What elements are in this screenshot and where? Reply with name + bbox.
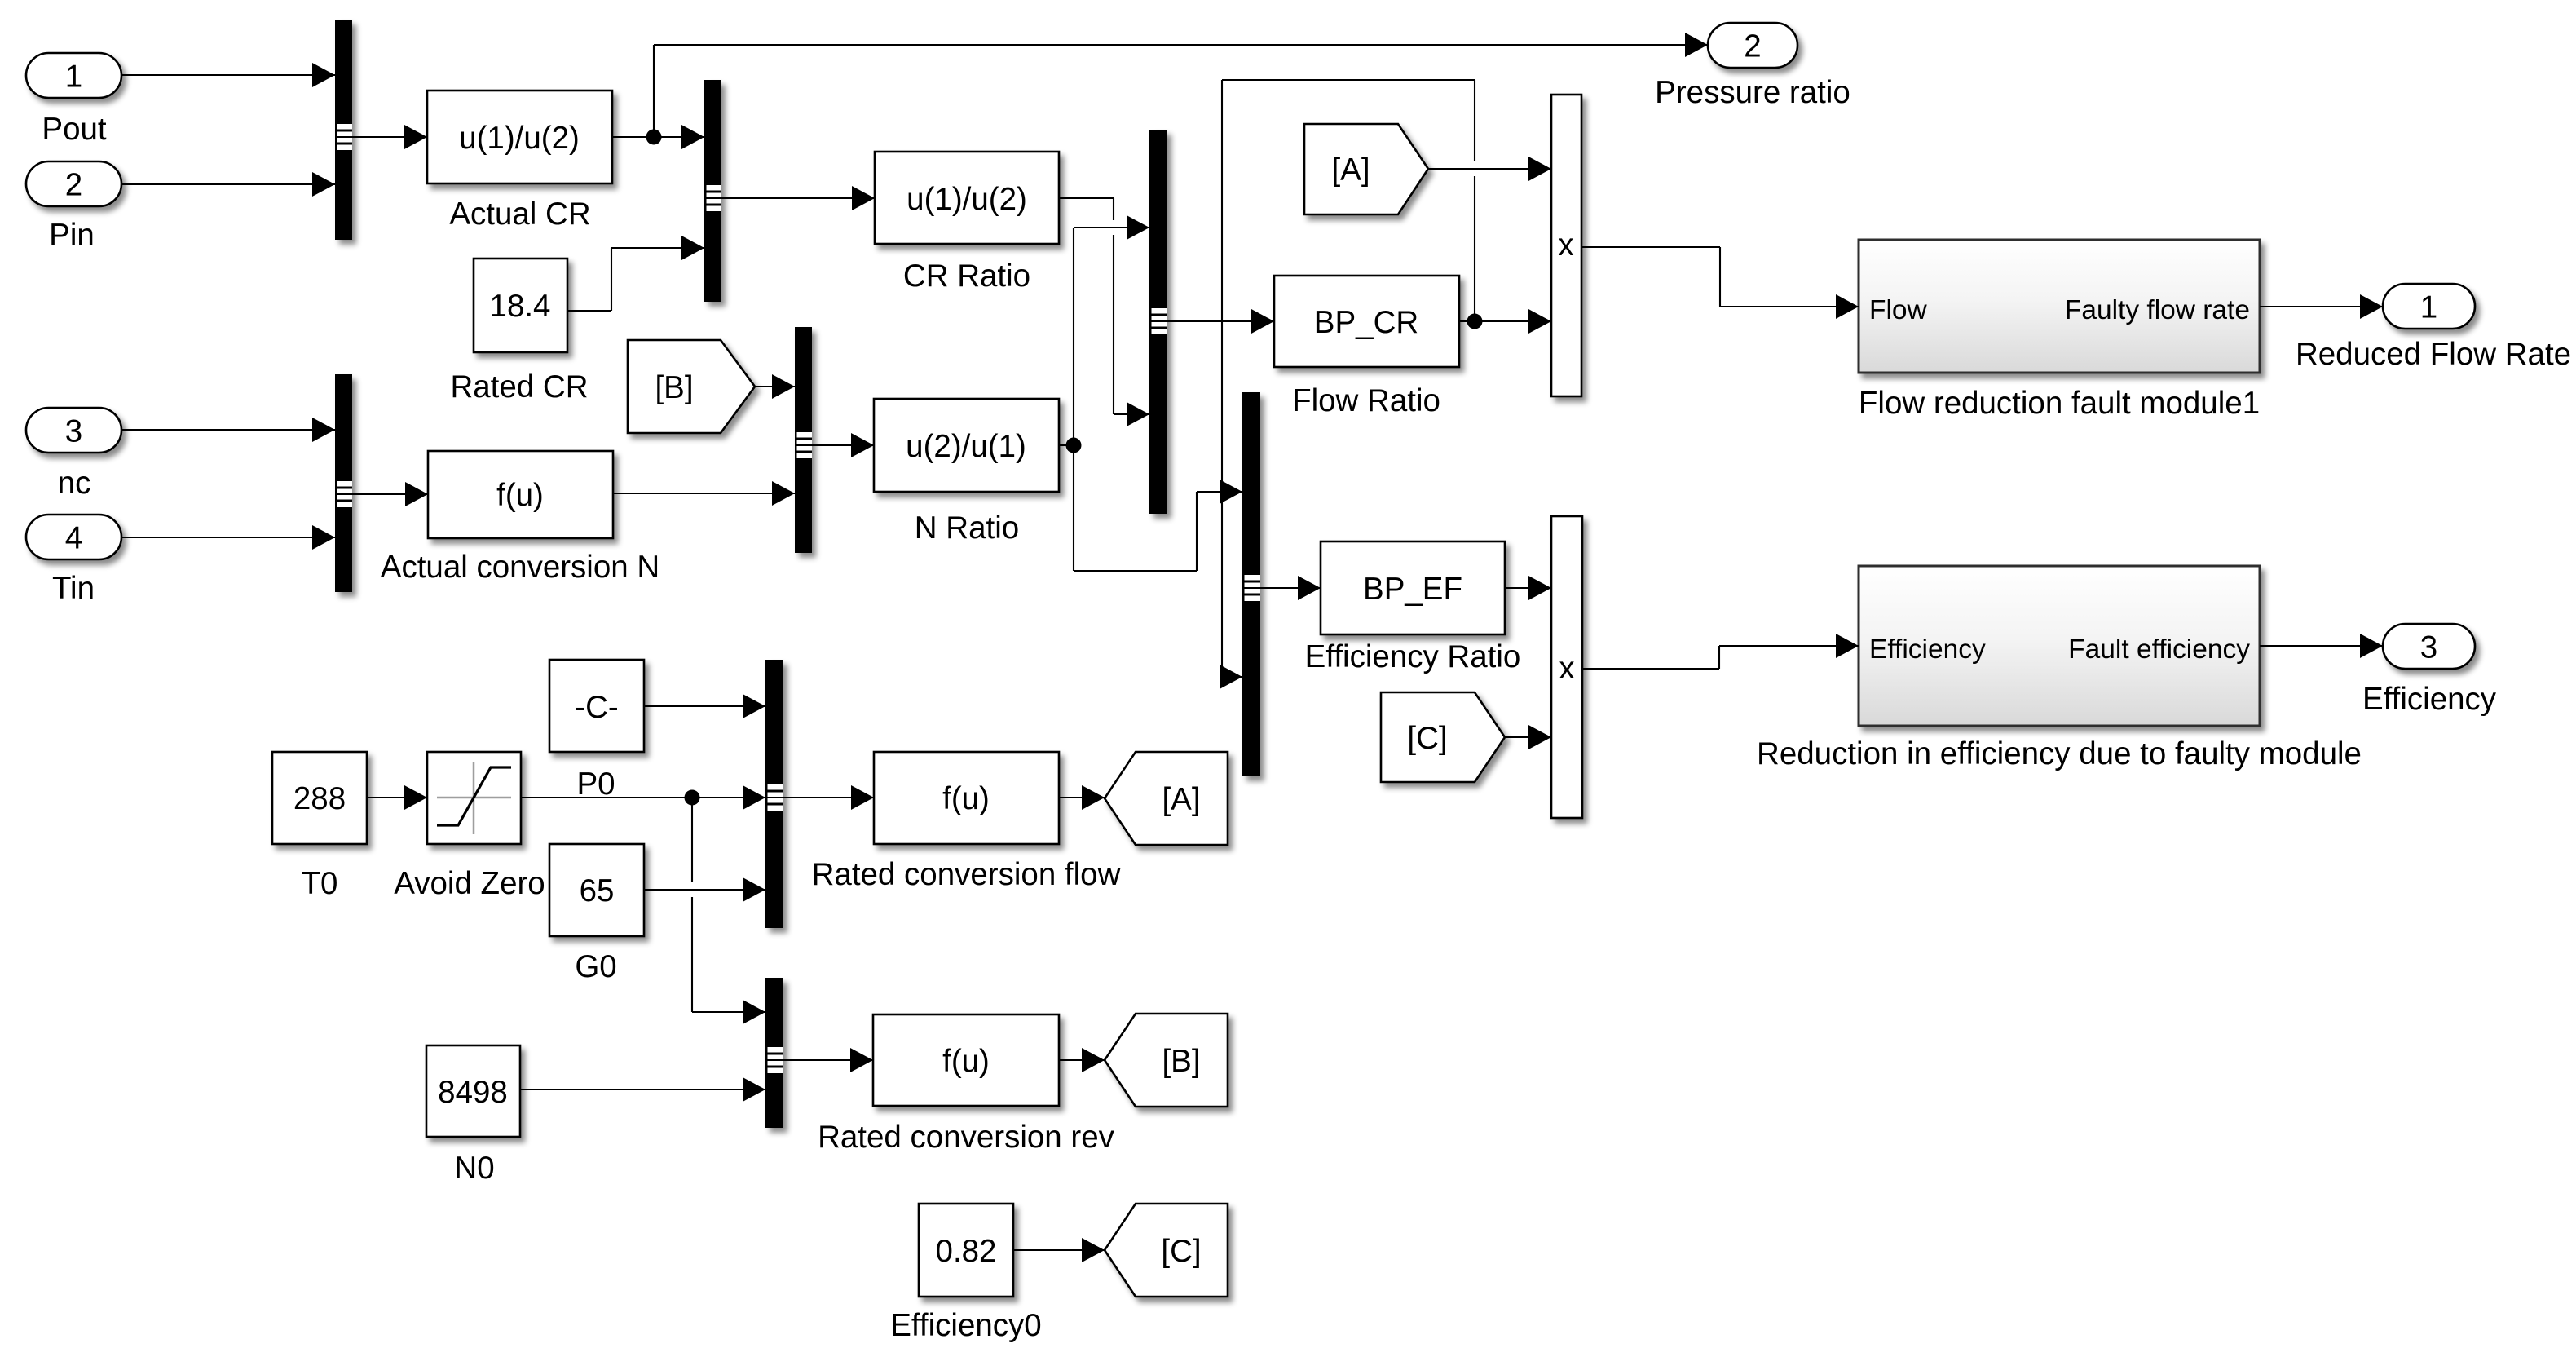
wire 8498 to M8 — [520, 1077, 765, 1102]
input port 2 (Pin) — [26, 161, 121, 206]
junction T0 line — [685, 790, 700, 806]
svg-text:u(2)/u(1): u(2)/u(1) — [906, 429, 1026, 464]
output port 3 (Efficiency) — [2383, 624, 2475, 669]
mux M1 (Pout,Pin bus) — [335, 20, 352, 240]
Goto tag [B] — [1105, 1014, 1228, 1107]
svg-text:Rated CR: Rated CR — [450, 369, 588, 404]
wire BP_CR feedback to M6 input2 — [1220, 80, 1475, 689]
mux M2 (ActualCR,RatedCR bus) — [704, 80, 721, 302]
wire N Ratio junction down to M6 input1 — [1074, 445, 1242, 571]
wire BP_CR to product X1 — [1459, 309, 1551, 334]
Fcn block Actual conversion N — [428, 451, 613, 538]
mux M7 (P0,T0,G0 bus) — [765, 660, 783, 928]
svg-text:N0: N0 — [454, 1151, 494, 1186]
From tag [A] — [1304, 124, 1428, 214]
wire Actual CR to Pressure ratio port — [654, 33, 1708, 137]
subsystem Flow reduction fault module1 — [1859, 240, 2260, 373]
svg-text:2: 2 — [1744, 29, 1761, 64]
svg-text:Efficiency Ratio: Efficiency Ratio — [1305, 639, 1521, 674]
From tag [B] — [628, 340, 755, 433]
svg-text:-C-: -C- — [575, 690, 618, 725]
wire [C] to product X2 — [1505, 725, 1551, 749]
svg-text:f(u): f(u) — [942, 1044, 990, 1079]
wire subsystem2 to Efficiency port — [2260, 634, 2383, 658]
input port 4 (Tin) — [26, 515, 121, 559]
wire T0 junction down to M8 — [692, 798, 765, 1024]
svg-text:[A]: [A] — [1162, 782, 1200, 817]
mux stripe icon M2 — [707, 185, 722, 211]
mux stripe icon M7 — [768, 784, 784, 811]
output port 2 (Pressure ratio) — [1708, 23, 1797, 68]
wire M4 to Actual conversion N — [352, 482, 428, 506]
svg-text:T0: T0 — [302, 866, 338, 901]
constant 18.4 (Rated CR) — [474, 259, 567, 352]
svg-text:[B]: [B] — [1162, 1044, 1200, 1079]
svg-text:[C]: [C] — [1407, 721, 1447, 756]
wire Actual conversion N to M3 — [613, 481, 795, 506]
svg-text:Flow: Flow — [1869, 295, 1928, 325]
svg-text:Fault efficiency: Fault efficiency — [2068, 634, 2250, 665]
wire nc to M4 — [121, 418, 335, 442]
mux M8 (T0,N0 bus) — [765, 978, 783, 1128]
svg-text:u(1)/u(2): u(1)/u(2) — [906, 182, 1027, 217]
divide block Actual CR — [427, 91, 612, 183]
svg-text:3: 3 — [2420, 630, 2437, 665]
mux M5 (ratios bus) — [1149, 130, 1167, 514]
wire M6 to BP_EF — [1260, 576, 1321, 600]
svg-text:Efficiency0: Efficiency0 — [890, 1308, 1041, 1343]
svg-text:N Ratio: N Ratio — [915, 510, 1019, 546]
wire BP_EF to product X2 — [1505, 576, 1551, 600]
divide block CR Ratio — [875, 152, 1059, 244]
svg-text:BP_CR: BP_CR — [1314, 305, 1418, 340]
svg-text:CR Ratio: CR Ratio — [903, 259, 1030, 294]
wire Rated CR 18.4 to M2 — [567, 236, 704, 311]
divide block N Ratio — [874, 399, 1059, 492]
wire M5 to BP_CR — [1167, 309, 1274, 334]
wire Avoid Zero to M7 — [521, 785, 765, 810]
svg-text:[A]: [A] — [1331, 152, 1370, 188]
constant -C- (P0) — [549, 660, 644, 752]
subsystem Reduction in efficiency due to faulty module — [1859, 566, 2260, 726]
svg-text:Avoid Zero: Avoid Zero — [394, 866, 545, 901]
wire Pout to M1 — [121, 63, 335, 87]
svg-text:18.4: 18.4 — [490, 289, 551, 324]
wire product X1 to subsystem1 — [1581, 247, 1859, 319]
svg-text:Tin: Tin — [52, 571, 95, 606]
junction BP_CR output — [1467, 314, 1483, 329]
svg-text:[B]: [B] — [655, 370, 693, 405]
svg-text:Reduced Flow Rate: Reduced Flow Rate — [2296, 337, 2571, 372]
svg-text:2: 2 — [65, 168, 82, 203]
wire N Ratio to junction — [1059, 444, 1074, 446]
svg-text:1: 1 — [65, 60, 82, 95]
svg-text:1: 1 — [2420, 290, 2437, 325]
svg-text:u(1)/u(2): u(1)/u(2) — [459, 121, 580, 156]
svg-text:0.82: 0.82 — [936, 1234, 997, 1269]
lookup block BP_CR (Flow Ratio) — [1274, 276, 1459, 367]
svg-text:[C]: [C] — [1161, 1234, 1201, 1269]
wire M2 to CR Ratio — [721, 186, 875, 210]
wire M7 to Rated conversion flow — [783, 785, 874, 810]
junction Actual CR output — [646, 130, 662, 145]
wire CR Ratio to M5 input2 — [1059, 198, 1149, 426]
wire 0.82 to Goto [C] — [1013, 1238, 1105, 1262]
wire M3 to N Ratio — [812, 433, 874, 457]
wire 65 to M7 — [644, 877, 765, 902]
svg-text:Rated conversion flow: Rated conversion flow — [812, 857, 1121, 892]
constant 8498 (N0) — [426, 1045, 520, 1137]
svg-text:4: 4 — [65, 521, 82, 556]
svg-text:f(u): f(u) — [942, 781, 990, 816]
wire product X2 to subsystem2 — [1582, 634, 1859, 669]
Fcn block Rated conversion flow — [874, 752, 1059, 844]
svg-text:Efficiency: Efficiency — [2362, 682, 2497, 717]
svg-text:288: 288 — [293, 781, 346, 816]
svg-text:Reduction in efficiency due to: Reduction in efficiency due to faulty mo… — [1757, 736, 2362, 771]
output port 1 (Reduced Flow Rate) — [2383, 284, 2475, 329]
svg-text:Actual conversion N: Actual conversion N — [381, 550, 659, 585]
product block X1 — [1551, 95, 1581, 396]
svg-text:nc: nc — [58, 466, 91, 501]
mux M4 (nc,Tin bus) — [335, 374, 352, 592]
wire [A] to product X1 — [1428, 157, 1551, 181]
svg-text:Pin: Pin — [49, 218, 95, 253]
wire 288 to Avoid Zero — [367, 785, 427, 810]
svg-text:Flow Ratio: Flow Ratio — [1292, 383, 1440, 418]
svg-text:G0: G0 — [575, 949, 616, 984]
constant 65 (G0) — [549, 844, 644, 936]
From tag [C] — [1381, 692, 1505, 782]
wire [B] to M3 — [755, 374, 795, 399]
wire Pin to M1 — [121, 172, 335, 197]
saturation icon (Avoid Zero) — [437, 762, 511, 834]
constant 288 (T0) — [272, 752, 367, 844]
svg-text:P0: P0 — [576, 767, 615, 802]
input port 3 (nc) — [26, 408, 121, 453]
svg-text:Flow reduction fault module1: Flow reduction fault module1 — [1859, 386, 2260, 421]
svg-text:Efficiency: Efficiency — [1869, 634, 1986, 665]
wire M1 to Actual CR — [352, 125, 427, 149]
wire subsystem1 to Reduced Flow Rate port — [2260, 294, 2383, 319]
wire Tin to M4 — [121, 525, 335, 550]
svg-text:x: x — [1558, 228, 1573, 263]
Goto tag [C] — [1105, 1204, 1228, 1297]
svg-text:Pressure ratio: Pressure ratio — [1655, 75, 1850, 110]
svg-text:x: x — [1559, 651, 1574, 686]
mux stripe icon M6 — [1245, 575, 1261, 601]
saturation block Avoid Zero — [427, 752, 521, 844]
mux stripe icon M4 — [337, 481, 353, 507]
svg-text:3: 3 — [65, 414, 82, 449]
mux M6 (efficiency bus) — [1242, 392, 1260, 776]
mux stripe icon M1 — [337, 124, 353, 150]
mux M3 ([B],conversion bus) — [795, 327, 812, 553]
wire Actual CR to M2 — [612, 125, 704, 149]
mux stripe icon M5 — [1152, 308, 1168, 334]
svg-text:65: 65 — [580, 873, 615, 908]
input port 1 (Pout) — [26, 53, 121, 98]
svg-text:Pout: Pout — [42, 112, 107, 147]
svg-text:Faulty flow rate: Faulty flow rate — [2065, 295, 2250, 325]
Goto tag [A] — [1105, 752, 1228, 845]
wire Rated conversion rev to Goto [B] — [1059, 1048, 1105, 1072]
svg-text:f(u): f(u) — [496, 478, 544, 513]
lookup block BP_EF (Efficiency Ratio) — [1321, 541, 1505, 634]
wire -C- to M7 — [644, 694, 765, 718]
svg-text:Actual CR: Actual CR — [449, 197, 590, 232]
svg-text:BP_EF: BP_EF — [1363, 572, 1462, 607]
wire M8 to Rated conversion rev — [783, 1048, 873, 1072]
junction N Ratio output — [1066, 438, 1082, 453]
wire N Ratio junction up to M5 input1 — [1074, 215, 1149, 445]
mux stripe icon M3 — [797, 432, 813, 458]
constant 0.82 (Efficiency0) — [919, 1204, 1013, 1297]
mux stripe icon M8 — [768, 1047, 784, 1073]
svg-text:Rated conversion rev: Rated conversion rev — [818, 1120, 1115, 1155]
svg-text:8498: 8498 — [438, 1075, 508, 1110]
product block X2 — [1551, 516, 1582, 818]
Fcn block Rated conversion rev — [873, 1014, 1059, 1106]
wire Rated conversion flow to Goto [A] — [1059, 785, 1105, 810]
